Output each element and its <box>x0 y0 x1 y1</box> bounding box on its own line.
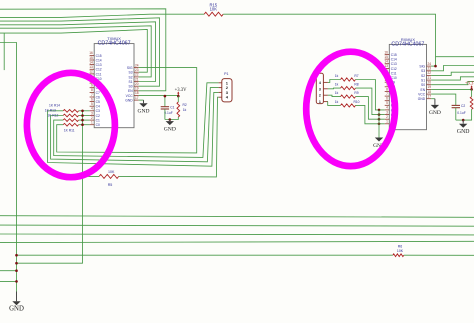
pin 8 (C7) of TXMUX <box>90 88 100 95</box>
svg-text:23: 23 <box>428 67 432 71</box>
wire resistor output to TXMUX pin <box>79 115 90 117</box>
wire bus line 5 <box>0 233 474 236</box>
pin 18 (VCC) of TXMUX <box>126 91 139 98</box>
svg-text:0.1uF: 0.1uF <box>457 111 465 115</box>
svg-text:9: 9 <box>91 84 93 88</box>
resistor R9 1k <box>341 95 356 98</box>
wire net S1-TX fan line D <box>0 22 156 82</box>
svg-text:P1: P1 <box>224 72 228 76</box>
svg-text:1K R12: 1K R12 <box>47 113 58 117</box>
svg-text:S0: S0 <box>129 85 133 89</box>
pin 9 (C8) of RXMUX <box>385 83 395 90</box>
wire R2 bottom to GND rail TX <box>165 117 178 120</box>
svg-text:3: 3 <box>386 110 388 114</box>
svg-text:21: 21 <box>428 76 432 80</box>
wire RXMUX VCC to C2 <box>431 94 456 105</box>
junction on TXMUX input column <box>81 114 84 117</box>
IC RXMUX (CD74HC4067) body <box>389 37 426 130</box>
wire RXMUX S1 staircase <box>431 77 474 80</box>
capacitor C2 0.1uF <box>452 105 460 107</box>
wire P2 pin to R7 <box>328 80 341 83</box>
pin 5 (C4) of TXMUX <box>90 102 100 109</box>
pin 6 (C5) of TXMUX <box>90 97 100 104</box>
svg-text:23: 23 <box>135 68 139 72</box>
svg-text:10K: 10K <box>108 170 115 174</box>
wire resistor output to TXMUX pin <box>79 124 90 126</box>
svg-text:GND: GND <box>125 99 133 103</box>
pin 7 (C6) of TXMUX <box>90 93 100 100</box>
svg-text:21: 21 <box>135 77 139 81</box>
pin 9 (C8) of TXMUX <box>90 84 100 91</box>
pin 4 (C3) of RXMUX <box>385 106 395 113</box>
pin 23 (S3) of RXMUX <box>421 67 431 74</box>
wire C2 bottom to GND rail RX <box>455 108 457 120</box>
wire P1 pin2 loop to R13 <box>51 88 219 162</box>
pin 7 (C6) of RXMUX <box>385 92 395 99</box>
svg-text:C1: C1 <box>96 119 100 123</box>
wire RX dot column to ground <box>378 110 380 138</box>
pin 2 (C1) of TXMUX <box>90 116 100 123</box>
wire RXMUX S0 staircase <box>431 81 474 84</box>
junction TX decoupling GND rail <box>169 118 172 121</box>
pin 20 (S0) of RXMUX <box>421 81 431 88</box>
wire P1 pin1 loop to R12 <box>54 83 219 158</box>
svg-text:C2: C2 <box>461 104 465 108</box>
svg-text:17: 17 <box>428 95 432 99</box>
pin 24 (SIG) of TXMUX <box>127 63 139 70</box>
wire +3.3V to R2 <box>177 96 179 102</box>
svg-text:VCC: VCC <box>418 93 426 97</box>
pin 12 (C11) of RXMUX <box>384 69 396 76</box>
junction on TXMUX input column <box>81 110 84 113</box>
wire P2 pin to R10 <box>328 102 341 106</box>
svg-text:3: 3 <box>91 111 93 115</box>
wire stub top-left <box>3 33 5 70</box>
junction RXMUX input column <box>378 109 381 112</box>
resistor R11 1K <box>63 123 78 126</box>
pin 21 (S1) of RXMUX <box>421 76 431 83</box>
svg-text:SIG: SIG <box>419 65 425 69</box>
wire staircase top line <box>436 56 474 58</box>
pin 10 (C9) of RXMUX <box>384 78 395 85</box>
pin 22 (S2) of TXMUX <box>129 73 139 80</box>
pin 10 (C9) of TXMUX <box>89 79 100 86</box>
annotation ellipse left <box>27 73 115 177</box>
wire P2 pin to R9 <box>328 95 341 96</box>
pin 23 (S3) of TXMUX <box>129 68 139 75</box>
svg-text:22: 22 <box>135 73 139 77</box>
svg-text:+3.3V: +3.3V <box>175 88 188 93</box>
pin 3 of P2 <box>323 88 328 90</box>
resistor R6 10K <box>393 254 404 257</box>
pin 2 of P1 <box>219 87 222 89</box>
pin 16 (C15) of RXMUX <box>384 50 397 57</box>
wire resistor output to TXMUX pin <box>79 119 90 121</box>
pin 18 (VCC) of RXMUX <box>418 90 431 97</box>
wire RXMUX EN to +3.3V <box>431 88 472 90</box>
svg-text:10K: 10K <box>210 6 218 11</box>
annotation ellipse right <box>306 52 395 166</box>
wire TXMUX GND pin <box>139 99 144 101</box>
svg-text:10K: 10K <box>397 249 404 253</box>
svg-text:1: 1 <box>319 100 321 104</box>
svg-text:C12: C12 <box>391 67 397 71</box>
svg-text:C7: C7 <box>96 91 100 95</box>
svg-text:18: 18 <box>135 91 139 95</box>
svg-text:R7: R7 <box>354 74 358 78</box>
junction RXMUX input column <box>378 123 381 126</box>
svg-text:C14: C14 <box>96 58 102 62</box>
connector P2 <box>316 68 328 104</box>
svg-text:2: 2 <box>91 116 93 120</box>
ground bottom-left <box>9 292 24 313</box>
svg-text:6: 6 <box>91 97 93 101</box>
svg-text:C3: C3 <box>96 109 100 113</box>
wire bus stub B <box>0 280 17 282</box>
wire P1 pin3 loop to R14 <box>48 92 219 166</box>
svg-text:EN: EN <box>421 88 426 92</box>
pin 11 (C10) of RXMUX <box>385 73 397 80</box>
resistor R13 1K <box>63 114 78 117</box>
pin 2 (C1) of RXMUX <box>385 115 395 122</box>
ground RX decoupling <box>457 120 470 135</box>
junction RXMUX input column <box>378 113 381 116</box>
wire loop from GND bus up to R5 row <box>17 176 83 263</box>
junction bus line 7 at GND bus <box>15 254 18 257</box>
svg-text:7: 7 <box>386 92 388 96</box>
wire R7 to RXMUX pin <box>356 80 385 110</box>
wire net B left segment into R15 <box>0 14 204 17</box>
pin 11 (C10) of TXMUX <box>89 74 101 81</box>
pin 3 (C2) of TXMUX <box>90 111 100 118</box>
wire bus line 4 <box>0 225 474 226</box>
wire TXMUX SIG loop to R11 <box>57 68 197 153</box>
pin 21 (S1) of TXMUX <box>129 77 139 84</box>
svg-text:15: 15 <box>89 56 93 60</box>
svg-text:R8: R8 <box>354 83 358 87</box>
pin 14 (C13) of RXMUX <box>384 60 397 67</box>
wire net S3-TX fan line F <box>0 30 147 73</box>
pin 17 (GND) of TXMUX <box>125 96 139 103</box>
svg-text:12: 12 <box>89 70 93 74</box>
svg-text:5: 5 <box>386 101 388 105</box>
svg-text:1K R14: 1K R14 <box>49 103 60 107</box>
svg-text:4: 4 <box>386 106 388 110</box>
pin 3 of P1 <box>219 91 222 93</box>
wire bus line 3 <box>0 216 474 218</box>
pin 2 of P2 <box>323 94 328 96</box>
wire left GND bus vertical <box>0 43 17 292</box>
ground RX input column <box>373 138 385 149</box>
svg-text:7: 7 <box>91 93 93 97</box>
pin 3 (C2) of RXMUX <box>385 110 395 117</box>
pin 6 (C5) of RXMUX <box>385 97 395 104</box>
svg-text:6: 6 <box>386 97 388 101</box>
wire bus line 7 right of R6 <box>404 254 474 256</box>
wire C1 top to VCC rail <box>164 96 166 107</box>
svg-text:C12: C12 <box>96 68 102 72</box>
wire C1 bottom to GND rail TX <box>164 109 166 120</box>
svg-text:4: 4 <box>319 81 321 85</box>
svg-text:1K R13: 1K R13 <box>45 109 56 113</box>
wire resistor output to TXMUX pin <box>79 110 90 112</box>
svg-text:C15: C15 <box>391 53 397 57</box>
svg-text:C13: C13 <box>96 63 102 67</box>
svg-text:18: 18 <box>428 90 432 94</box>
svg-text:20: 20 <box>428 81 432 85</box>
resistor R1 1k <box>470 97 473 110</box>
pin 22 (S2) of RXMUX <box>421 71 431 78</box>
wire R8 to RXMUX pin <box>356 88 385 115</box>
svg-text:GND: GND <box>164 126 176 132</box>
pin 1 (C0) of TXMUX <box>90 121 100 128</box>
ground TXMUX <box>138 100 150 115</box>
wire net EN-TX: top line A to TXMUX EN pin <box>0 9 166 91</box>
pin 4 of P1 <box>219 96 222 98</box>
pin 17 (GND) of RXMUX <box>418 95 432 102</box>
svg-text:14: 14 <box>384 60 388 64</box>
svg-text:C14: C14 <box>391 58 397 62</box>
svg-text:+3.3V: +3.3V <box>465 82 474 87</box>
wire R10 to RXMUX pin <box>356 105 385 123</box>
svg-text:1k: 1k <box>183 108 187 112</box>
svg-text:S3: S3 <box>421 69 425 73</box>
svg-text:C11: C11 <box>96 72 102 76</box>
svg-text:GND: GND <box>138 109 150 115</box>
svg-text:C15: C15 <box>96 54 102 58</box>
svg-text:R5: R5 <box>108 183 113 187</box>
svg-text:8: 8 <box>91 88 93 92</box>
wire R9 to RXMUX pin <box>356 97 385 120</box>
svg-text:0.1uF: 0.1uF <box>164 111 172 115</box>
svg-text:1: 1 <box>386 120 388 124</box>
wire R1 bottom to GND rail RX <box>456 109 472 120</box>
svg-text:R2: R2 <box>182 103 186 107</box>
svg-text:15: 15 <box>384 55 388 59</box>
junction RX EN +3.3V <box>470 88 473 91</box>
svg-text:C13: C13 <box>391 62 397 66</box>
svg-text:S2: S2 <box>421 74 425 78</box>
pin 16 (C15) of TXMUX <box>89 51 102 58</box>
svg-text:CD74HC4067: CD74HC4067 <box>98 41 131 47</box>
svg-text:C2: C2 <box>96 114 100 118</box>
pin 24 (SIG) of RXMUX <box>419 62 431 69</box>
svg-text:C4: C4 <box>96 105 100 109</box>
resistor R15 10K <box>204 12 223 16</box>
svg-text:1: 1 <box>91 121 93 125</box>
svg-text:1k: 1k <box>335 91 339 95</box>
wire bus stub A <box>0 270 17 272</box>
wire VCC TXMUX to +3.3V <box>139 94 179 97</box>
svg-text:19: 19 <box>135 87 139 91</box>
svg-text:GND: GND <box>457 129 470 135</box>
junction C1 top <box>164 95 167 98</box>
svg-text:24: 24 <box>135 63 139 67</box>
svg-text:S0: S0 <box>421 83 425 87</box>
wire net S0-TX fan line C <box>0 18 160 86</box>
junction +3.3V TX <box>177 95 180 98</box>
svg-text:R10: R10 <box>353 100 359 104</box>
ground RXMUX <box>429 99 441 117</box>
svg-text:C6: C6 <box>96 95 100 99</box>
junction on TXMUX input column <box>81 119 84 122</box>
junction on TXMUX input column <box>81 123 84 126</box>
svg-text:2: 2 <box>319 94 321 98</box>
resistor R14 1K <box>63 109 78 112</box>
pin 15 (C14) of RXMUX <box>384 55 397 62</box>
resistor R5 10K <box>99 174 119 178</box>
pin 1 of P2 <box>323 101 328 103</box>
svg-text:22: 22 <box>428 71 432 75</box>
pin 4 (C3) of TXMUX <box>90 107 100 114</box>
svg-text:5: 5 <box>91 102 93 106</box>
svg-text:R9: R9 <box>354 91 358 95</box>
resistor R12 1K <box>63 119 78 122</box>
svg-text:19: 19 <box>428 85 432 89</box>
power +3.3V (TX) <box>175 88 188 96</box>
svg-text:C11: C11 <box>391 71 397 75</box>
pin 12 (C11) of TXMUX <box>89 70 101 77</box>
resistor R7 1k <box>341 78 356 81</box>
svg-text:24: 24 <box>428 62 432 66</box>
svg-text:S1: S1 <box>129 80 133 84</box>
junction RXMUX SIG <box>434 65 437 68</box>
svg-text:S3: S3 <box>129 71 133 75</box>
capacitor C1 0.1uF <box>161 107 169 109</box>
svg-text:13: 13 <box>89 65 93 69</box>
svg-text:3: 3 <box>319 87 321 91</box>
pin 5 (C4) of RXMUX <box>385 101 395 108</box>
svg-text:1k: 1k <box>335 74 339 78</box>
wire +3.3V to R1 <box>471 89 473 96</box>
wire RXMUX SIG pin to junction <box>431 65 435 67</box>
svg-text:1k: 1k <box>335 100 339 104</box>
junction bus stub A <box>15 269 18 272</box>
svg-text:2: 2 <box>386 115 388 119</box>
resistor R10 1k <box>341 104 356 107</box>
svg-text:16: 16 <box>384 50 388 54</box>
IC TXMUX (CD74HC4067) body <box>94 36 134 128</box>
pin 15 (C14) of TXMUX <box>89 56 102 63</box>
wire P2 pin to R8 <box>328 87 341 90</box>
wire net B right segment R15 to RXMUX SIG <box>223 14 435 66</box>
connector P1 <box>219 72 232 102</box>
svg-text:VCC: VCC <box>126 94 134 98</box>
pin 1 (C0) of RXMUX <box>385 120 395 127</box>
pin 20 (S0) of TXMUX <box>129 82 139 89</box>
pin 1 of P1 <box>219 82 222 84</box>
wire bus line 6 <box>0 241 474 242</box>
svg-text:17: 17 <box>135 96 139 100</box>
svg-text:C1: C1 <box>170 105 174 109</box>
wire RXMUX S3 staircase <box>431 66 474 71</box>
wire RXMUX GND pin <box>431 98 435 100</box>
svg-text:GND: GND <box>429 110 441 116</box>
svg-text:GND: GND <box>9 306 24 313</box>
pin 14 (C13) of TXMUX <box>89 60 102 67</box>
svg-text:CD74HC4067: CD74HC4067 <box>391 41 424 47</box>
wire bus line 7 left of R6 <box>17 254 393 256</box>
wire RXMUX S2 staircase <box>431 72 474 75</box>
pin 19 (EN) of RXMUX <box>421 85 432 92</box>
junction loop at GND bus <box>15 262 18 265</box>
wire net S2-TX fan line E <box>0 26 151 77</box>
svg-text:EN: EN <box>128 89 133 93</box>
power +3.3V (RX) <box>465 82 474 90</box>
wire P1 pin4 loop right segment to R5 <box>119 97 219 177</box>
pin 13 (C12) of RXMUX <box>384 64 397 71</box>
svg-text:C0: C0 <box>96 123 100 127</box>
svg-text:20: 20 <box>135 82 139 86</box>
svg-text:GND: GND <box>418 97 426 101</box>
pin 13 (C12) of TXMUX <box>89 65 102 72</box>
wire R5 left segment up dot column <box>83 111 100 177</box>
pin 8 (C7) of RXMUX <box>385 87 395 94</box>
junction RX decoupling GND rail <box>462 119 465 122</box>
junction bus stub B <box>15 280 18 283</box>
pin 19 (EN) of TXMUX <box>128 87 139 94</box>
svg-text:1K R11: 1K R11 <box>64 129 75 133</box>
svg-text:SIG: SIG <box>127 66 133 70</box>
resistor R8 1k <box>341 87 356 90</box>
svg-text:S1: S1 <box>421 79 425 83</box>
resistor R2 1k <box>177 102 180 117</box>
junction RXMUX input column <box>378 118 381 121</box>
ground TX decoupling <box>164 120 176 133</box>
svg-text:1k: 1k <box>335 83 339 87</box>
svg-text:14: 14 <box>89 60 93 64</box>
svg-text:8: 8 <box>386 87 388 91</box>
svg-text:4: 4 <box>91 107 93 111</box>
svg-text:S2: S2 <box>129 75 133 79</box>
svg-text:16: 16 <box>89 51 93 55</box>
svg-text:C5: C5 <box>96 100 100 104</box>
pin 4 of P2 <box>323 81 328 83</box>
